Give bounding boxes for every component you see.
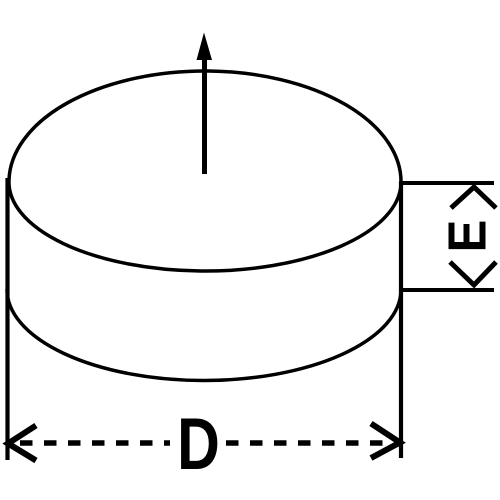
magnetization arrow head — [197, 33, 213, 61]
label E — [438, 220, 497, 253]
E dimension lower chevron arrow — [450, 262, 496, 285]
E dimension upper chevron arrow — [451, 187, 496, 208]
svg-text:E: E — [438, 220, 497, 253]
cylinder bottom arc — [7, 289, 401, 381]
D dimension right arrow — [371, 424, 400, 459]
magnetization arrow shaft — [202, 52, 207, 174]
D dimension dashed line right part — [226, 440, 398, 446]
cylinder top ellipse — [9, 71, 401, 271]
D dimension left arrow — [8, 426, 36, 461]
right wall and extension line — [399, 182, 403, 458]
svg-text:D: D — [177, 404, 220, 485]
left wall and extension line — [5, 178, 9, 460]
D dimension dashed line left part — [20, 440, 170, 446]
E dimension top line — [399, 181, 494, 185]
E dimension bottom line — [399, 288, 494, 292]
